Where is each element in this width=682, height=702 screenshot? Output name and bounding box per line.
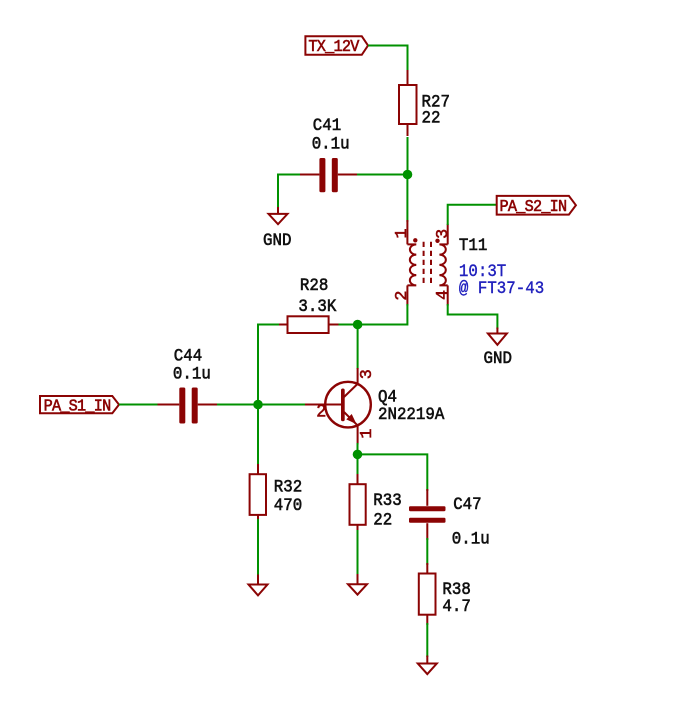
wire junction to R28 <box>337 324 358 326</box>
wire PA_S1_IN to C44 <box>119 404 159 406</box>
capacitor C41 <box>299 158 357 192</box>
emitter pin <box>357 425 359 444</box>
svg-text:C44: C44 <box>174 347 202 367</box>
wire transformer pin 3 to PA_S2_IN <box>448 205 497 225</box>
wire R27 to junction <box>407 137 409 175</box>
svg-text:3: 3 <box>358 369 377 379</box>
wire emitter to junction <box>357 443 359 454</box>
svg-text:GND: GND <box>263 231 291 251</box>
resistor R33 <box>350 474 366 532</box>
junction node at R28/collector <box>353 320 363 330</box>
svg-text:3.3K: 3.3K <box>298 297 337 317</box>
svg-text:2N2219A: 2N2219A <box>378 405 445 425</box>
phase dot secondary <box>435 239 439 243</box>
svg-text:C41: C41 <box>313 116 341 136</box>
wire emitter junction down to R33 <box>357 454 359 476</box>
pin 4 lead <box>447 285 449 305</box>
wire C41 to GND <box>278 175 300 209</box>
junction node emitter <box>353 450 363 460</box>
hierarchical label TX_12V <box>305 36 368 56</box>
pin 2 lead <box>406 285 408 305</box>
wire R28 left to base net corner <box>258 325 279 405</box>
wire R33 to ground <box>357 530 359 576</box>
svg-text:@ FT37-43: @ FT37-43 <box>459 279 544 299</box>
ground at R38 <box>418 656 437 675</box>
wire emitter junction to C47 branch <box>358 454 428 491</box>
wire C41 right lead to junction <box>355 174 408 176</box>
wire C44 to junction <box>217 404 258 406</box>
wire junction to Q4 base <box>258 404 306 406</box>
svg-text:PA_S2_IN: PA_S2_IN <box>500 197 567 216</box>
ground at transformer <box>488 328 507 345</box>
phase dot primary <box>413 238 417 242</box>
wire R32 to ground <box>257 519 259 576</box>
pin 3 lead <box>447 224 449 245</box>
resistor R27 <box>399 70 417 136</box>
svg-text:TX_12V: TX_12V <box>308 37 359 56</box>
pin 1 lead <box>406 220 408 244</box>
svg-text:0.1u: 0.1u <box>173 365 211 385</box>
svg-text:22: 22 <box>422 109 441 129</box>
base bar <box>341 389 345 422</box>
wire junction down to R32 <box>257 405 259 467</box>
svg-text:2: 2 <box>316 402 326 423</box>
svg-text:4.7: 4.7 <box>442 597 470 617</box>
ground at R33 <box>348 574 367 595</box>
svg-text:R32: R32 <box>274 478 302 498</box>
svg-text:C47: C47 <box>453 495 481 515</box>
transistor Q4 <box>305 368 371 445</box>
svg-text:1: 1 <box>358 429 377 439</box>
emitter line <box>344 412 358 425</box>
capacitor C47 <box>409 489 446 540</box>
wire TX_12V to R27 <box>368 45 408 47</box>
secondary winding <box>439 244 447 285</box>
ground at R32 <box>249 575 268 596</box>
svg-text:2: 2 <box>393 291 412 301</box>
wire transformer pin 4 to GND <box>448 304 498 329</box>
svg-text:GND: GND <box>484 349 512 369</box>
transformer T11 <box>407 220 447 306</box>
capacitor C44 <box>158 388 220 424</box>
svg-text:T11: T11 <box>459 236 487 256</box>
resistor R38 <box>419 563 436 625</box>
svg-text:1: 1 <box>393 228 412 238</box>
resistor R32 <box>250 464 266 521</box>
svg-text:R28: R28 <box>300 276 328 296</box>
primary winding <box>407 244 416 285</box>
svg-text:3: 3 <box>434 229 453 239</box>
collector pin <box>357 368 359 385</box>
svg-text:4: 4 <box>434 290 453 300</box>
svg-text:470: 470 <box>274 496 302 516</box>
svg-text:0.1u: 0.1u <box>452 530 490 550</box>
resistor R28 <box>278 316 339 333</box>
svg-text:PA_S1_IN: PA_S1_IN <box>44 397 111 416</box>
emitter arrow <box>346 414 356 424</box>
ground at C41 <box>269 207 288 224</box>
wire down to R27 <box>407 45 409 73</box>
junction node base net <box>253 400 263 410</box>
wire R38 to ground <box>426 623 428 657</box>
wire junction down to Q4 collector <box>357 325 359 370</box>
wire C47 to R38 <box>426 538 428 565</box>
junction node at R27/C41 <box>403 170 413 180</box>
svg-text:R33: R33 <box>373 491 401 511</box>
svg-text:0.1u: 0.1u <box>312 135 350 155</box>
base pin <box>305 404 341 406</box>
collector line <box>344 384 358 397</box>
hierarchical label PA_S2_IN <box>497 196 576 216</box>
core dashed lines <box>423 242 425 287</box>
wire junction to transformer pin 1 <box>406 175 408 223</box>
hierarchical label PA_S1_IN <box>40 396 119 416</box>
wire transformer pin 2 down and to R28 junction <box>360 304 407 325</box>
svg-text:22: 22 <box>373 511 392 531</box>
